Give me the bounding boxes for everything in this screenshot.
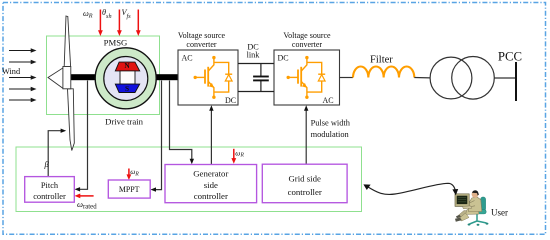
svg-text:β: β [44, 159, 50, 169]
svg-text:DC: DC [225, 96, 236, 105]
svg-text:User: User [491, 208, 508, 218]
svg-text:N: N [124, 61, 130, 70]
svg-text:PCC: PCC [498, 50, 522, 64]
svg-text:Filter: Filter [370, 55, 393, 66]
svg-text:S: S [125, 84, 129, 93]
svg-text:DC: DC [278, 54, 289, 63]
svg-text:Voltage source: Voltage source [178, 31, 226, 40]
svg-text:Grid side: Grid side [288, 173, 321, 183]
svg-text:link: link [247, 51, 261, 60]
svg-text:AC: AC [182, 54, 193, 63]
svg-text:Wind: Wind [2, 67, 21, 76]
svg-text:converter: converter [292, 40, 323, 49]
svg-text:MPPT: MPPT [119, 185, 140, 194]
svg-text:Pitch: Pitch [41, 181, 59, 190]
svg-text:modulation: modulation [311, 130, 350, 139]
svg-text:controller: controller [194, 191, 228, 201]
svg-text:Generator: Generator [193, 168, 228, 178]
svg-text:Drive train: Drive train [105, 117, 144, 127]
svg-text:AC: AC [323, 96, 334, 105]
svg-text:PMSG: PMSG [104, 38, 128, 48]
svg-text:side: side [204, 180, 218, 190]
svg-text:Voltage source: Voltage source [283, 31, 331, 40]
svg-text:controller: controller [33, 192, 66, 201]
svg-text:controller: controller [288, 187, 322, 197]
svg-text:Pulse width: Pulse width [311, 119, 351, 128]
svg-text:converter: converter [186, 40, 217, 49]
